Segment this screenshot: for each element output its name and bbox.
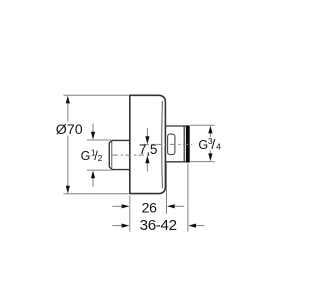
svg-text:7,5: 7,5 <box>139 142 157 157</box>
dimension Ø70 arrow down <box>66 186 70 194</box>
svg-text:36-42: 36-42 <box>140 217 177 234</box>
flange outline (rosette Ø70) <box>130 95 166 193</box>
hex flat on outlet <box>168 134 175 155</box>
dimension Ø70 line lower segment <box>67 136 69 187</box>
dimension G1/2 extension line bottom <box>87 169 111 171</box>
svg-text:4: 4 <box>216 142 221 152</box>
svg-text:G: G <box>198 138 208 152</box>
G3/4 thread end groove line <box>183 126 185 162</box>
dimension 36-42 extension line left (flange face) <box>129 196 131 232</box>
svg-text:26: 26 <box>142 200 157 216</box>
G3/4 outlet section bottom edge <box>165 161 186 163</box>
svg-text:Ø70: Ø70 <box>56 122 83 138</box>
dimension G1/2 lower arrow <box>92 178 94 186</box>
centerline flange axis <box>144 143 193 145</box>
dimension 26 left arrow <box>112 205 121 207</box>
G1/2 stub thread chamfer line <box>111 141 113 169</box>
dimension 7,5 upper arrow <box>146 128 148 137</box>
dimension G3/4 lower arrow <box>209 150 211 154</box>
union body G1/2 stub <box>109 140 130 169</box>
dimension 26 extension line right <box>166 163 168 214</box>
dimension G1/2 extension line top <box>87 139 111 141</box>
dimension G1/2 upper arrow <box>92 124 94 133</box>
centerline stub axis <box>112 154 150 156</box>
dimension Ø70 extension line top <box>64 94 129 96</box>
svg-text:G: G <box>81 149 91 163</box>
dimension Ø70 extension line bottom <box>64 193 129 195</box>
seal washer (black bar) <box>186 125 190 162</box>
dimension 36-42 left arrow <box>112 225 121 227</box>
dimension G3/4 upper arrow <box>209 133 211 137</box>
flange dome silhouette line <box>161 101 164 188</box>
dimension G3/4 extension line top <box>190 124 214 126</box>
dimension Ø70 line upper segment <box>67 103 69 122</box>
dimension G3/4 extension line bottom <box>190 161 214 163</box>
svg-text:/: / <box>211 136 215 152</box>
dimension 7,5 lower arrow <box>146 163 148 171</box>
dimension Ø70 arrow up <box>66 96 70 104</box>
dimension 26 right arrow <box>175 205 184 207</box>
svg-text:2: 2 <box>98 153 103 163</box>
dimension 36-42 extension line right (seal face) <box>187 164 189 232</box>
G3/4 outlet section top edge <box>165 125 186 127</box>
dimension 36-42 right arrow <box>196 225 204 227</box>
